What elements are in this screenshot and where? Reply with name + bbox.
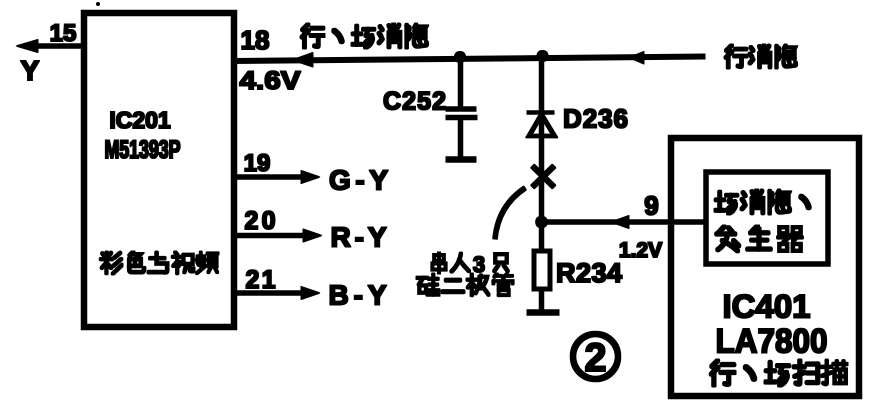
串入3只 label — [432, 252, 507, 277]
svg-text:R234: R234 — [556, 258, 622, 288]
svg-text:15: 15 — [50, 20, 77, 47]
wire pin 21 — [234, 291, 305, 296]
svg-text:M51393P: M51393P — [105, 136, 181, 164]
node junction pin9 — [536, 216, 548, 228]
行、场扫描 label — [711, 361, 847, 386]
capacitor C252 — [446, 57, 477, 157]
op-amp U2 : IC401 box — [671, 138, 859, 396]
inner box 场消隐发生器 — [706, 172, 828, 264]
svg-text:18: 18 — [241, 25, 270, 55]
场消隐、 label — [716, 190, 809, 213]
svg-text:LA7800: LA7800 — [716, 323, 828, 361]
arrow left on top bus right segment — [629, 52, 644, 65]
svg-text:C252: C252 — [383, 88, 446, 116]
wire pin 9 — [542, 220, 707, 225]
node junction D236 — [537, 51, 548, 62]
行、场消隐 label — [302, 24, 427, 47]
arrow left pin 15 — [16, 40, 38, 53]
svg-text:9: 9 — [644, 191, 658, 221]
发生器 label — [717, 226, 802, 251]
svg-text:2: 2 — [584, 336, 606, 380]
arrow left pin 9 — [611, 216, 629, 229]
op-amp U1 : IC201 box — [84, 13, 234, 327]
wire 行、场消隐 top bus — [234, 57, 705, 62]
svg-text:4.6V: 4.6V — [240, 67, 301, 95]
circled figure number 2 — [573, 334, 618, 380]
svg-text:3: 3 — [473, 252, 485, 277]
svg-text:IC201: IC201 — [109, 107, 171, 133]
ground C252 — [446, 157, 476, 163]
svg-text:IC401: IC401 — [723, 289, 811, 325]
diode D236 — [527, 56, 555, 166]
svg-text:1.2V: 1.2V — [619, 239, 662, 262]
node junction C252 — [455, 52, 466, 63]
X break mark — [533, 166, 555, 187]
arrow right pin 19 — [301, 171, 320, 184]
ground R234 — [527, 310, 559, 316]
wire pin 20 — [234, 233, 307, 238]
彩色与视频 label — [101, 252, 218, 274]
svg-text:B-Y: B-Y — [329, 280, 387, 311]
硅二极管 label — [417, 274, 513, 295]
wire pin 15 — [24, 44, 84, 49]
svg-text:Y: Y — [21, 55, 40, 86]
svg-text:19: 19 — [244, 150, 271, 177]
scan speck — [96, 2, 100, 6]
arrow right pin 21 — [301, 287, 320, 300]
svg-text:R-Y: R-Y — [331, 222, 387, 253]
svg-text:G-Y: G-Y — [329, 165, 388, 196]
wire X to node — [539, 166, 544, 222]
行消隐 label right — [726, 45, 796, 68]
arrow right pin 20 — [303, 229, 322, 242]
svg-text:D236: D236 — [563, 104, 628, 134]
arrow left on top bus near IC201 — [292, 53, 313, 68]
wire pin 19 — [234, 175, 305, 180]
resistor R234 — [534, 222, 550, 310]
callout arc 串入3只硅二极管 — [495, 188, 525, 239]
